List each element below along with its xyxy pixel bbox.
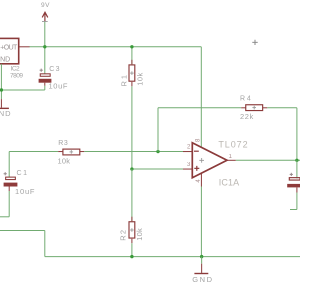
pin 3 stub (183, 168, 192, 170)
supply symbol 9V arrow (42, 12, 48, 21)
supply origin tick (42, 21, 48, 23)
svg-text:22k: 22k (240, 112, 254, 121)
svg-text:TL072: TL072 (218, 139, 247, 149)
capacitor C1 (4, 172, 18, 186)
svg-text:10k: 10k (135, 228, 144, 241)
ground symbol bottom (201, 257, 203, 264)
capacitor C3 (39, 69, 52, 83)
wire pin3 to divider (132, 168, 183, 170)
wire C1 bottom (8, 187, 10, 192)
junction gnd bus (200, 255, 203, 258)
op-amp IC1A triangle (192, 143, 227, 178)
wire feedback horizontal to R4 (158, 107, 241, 109)
junction 9V (43, 45, 46, 48)
pin 1 stub (227, 159, 236, 161)
op-amp plus marker (194, 166, 199, 171)
junction output right (295, 159, 298, 162)
op-amp origin cross (199, 158, 204, 163)
svg-text:10uF: 10uF (15, 187, 35, 196)
regulator IC2 box (0, 38, 19, 63)
svg-text:IC2: IC2 (11, 65, 20, 72)
junction R2 bus (130, 255, 133, 258)
pin OUT stub (20, 46, 30, 48)
wire pin4 to bus (200, 187, 202, 257)
wire C3 bottom to gnd pin (44, 83, 46, 86)
wire R3 right to pin2 (84, 151, 183, 153)
wire feedback vertical (157, 108, 159, 152)
junction R1 top (130, 45, 133, 48)
junction feedback/pin2 (156, 150, 159, 153)
pin 4 stub (200, 173, 202, 186)
capacitor C2 output (287, 160, 301, 209)
resistor R3 (63, 149, 84, 155)
wire 9V stem (44, 22, 46, 47)
svg-text:10k: 10k (136, 73, 145, 86)
resistor R4 (241, 105, 267, 111)
wire output (236, 159, 300, 161)
resistor R2 (129, 169, 135, 257)
wire left input to bus (0, 230, 45, 232)
resistor R1 (129, 47, 135, 169)
wire R3 left + C1 branch (9, 151, 58, 153)
svg-text:GND: GND (0, 57, 10, 64)
junction divider mid (130, 167, 133, 170)
svg-text:7809: 7809 (10, 72, 23, 79)
svg-text:9V: 9V (41, 2, 50, 9)
svg-text:10uF: 10uF (49, 82, 68, 91)
stray origin cross (252, 40, 257, 45)
wire 9V rail (29, 46, 201, 48)
wire pin8 power drop (200, 47, 202, 148)
ground symbol left (0, 107, 9, 109)
junction C3 gnd (0, 88, 3, 91)
wire R4 right down to output (267, 107, 297, 109)
svg-text:GND: GND (192, 275, 212, 284)
svg-text:IC1A: IC1A (219, 177, 240, 187)
svg-text:GND: GND (0, 109, 11, 118)
pin 2 stub (183, 151, 192, 153)
wire ground bus (45, 256, 300, 258)
svg-text:R2: R2 (119, 230, 128, 241)
op-amp minus marker (194, 150, 199, 152)
regulator GND pin wire (0, 64, 2, 99)
svg-text:R3: R3 (58, 140, 68, 147)
wire C3 top (44, 47, 46, 74)
svg-text:10k: 10k (58, 156, 71, 165)
svg-text:+OUT: +OUT (0, 44, 18, 51)
